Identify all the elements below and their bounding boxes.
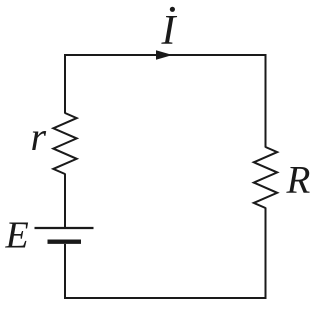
battery E positive plate xyxy=(35,227,94,229)
wire left lower xyxy=(64,244,66,299)
wire top xyxy=(64,54,267,56)
wire left middle xyxy=(64,174,66,229)
wire left upper xyxy=(64,54,66,114)
wire bottom xyxy=(64,297,267,299)
battery E negative plate xyxy=(48,239,82,243)
svg-text:R: R xyxy=(286,159,311,202)
svg-text:E: E xyxy=(5,215,29,257)
resistor r xyxy=(53,113,76,174)
svg-text:I: I xyxy=(161,8,178,54)
wire right upper xyxy=(265,54,267,148)
label I (current phasor, dot above) xyxy=(161,7,178,54)
current arrow xyxy=(156,50,173,60)
resistor R xyxy=(254,147,277,208)
wire right lower xyxy=(265,208,267,300)
svg-text:r: r xyxy=(31,114,47,159)
